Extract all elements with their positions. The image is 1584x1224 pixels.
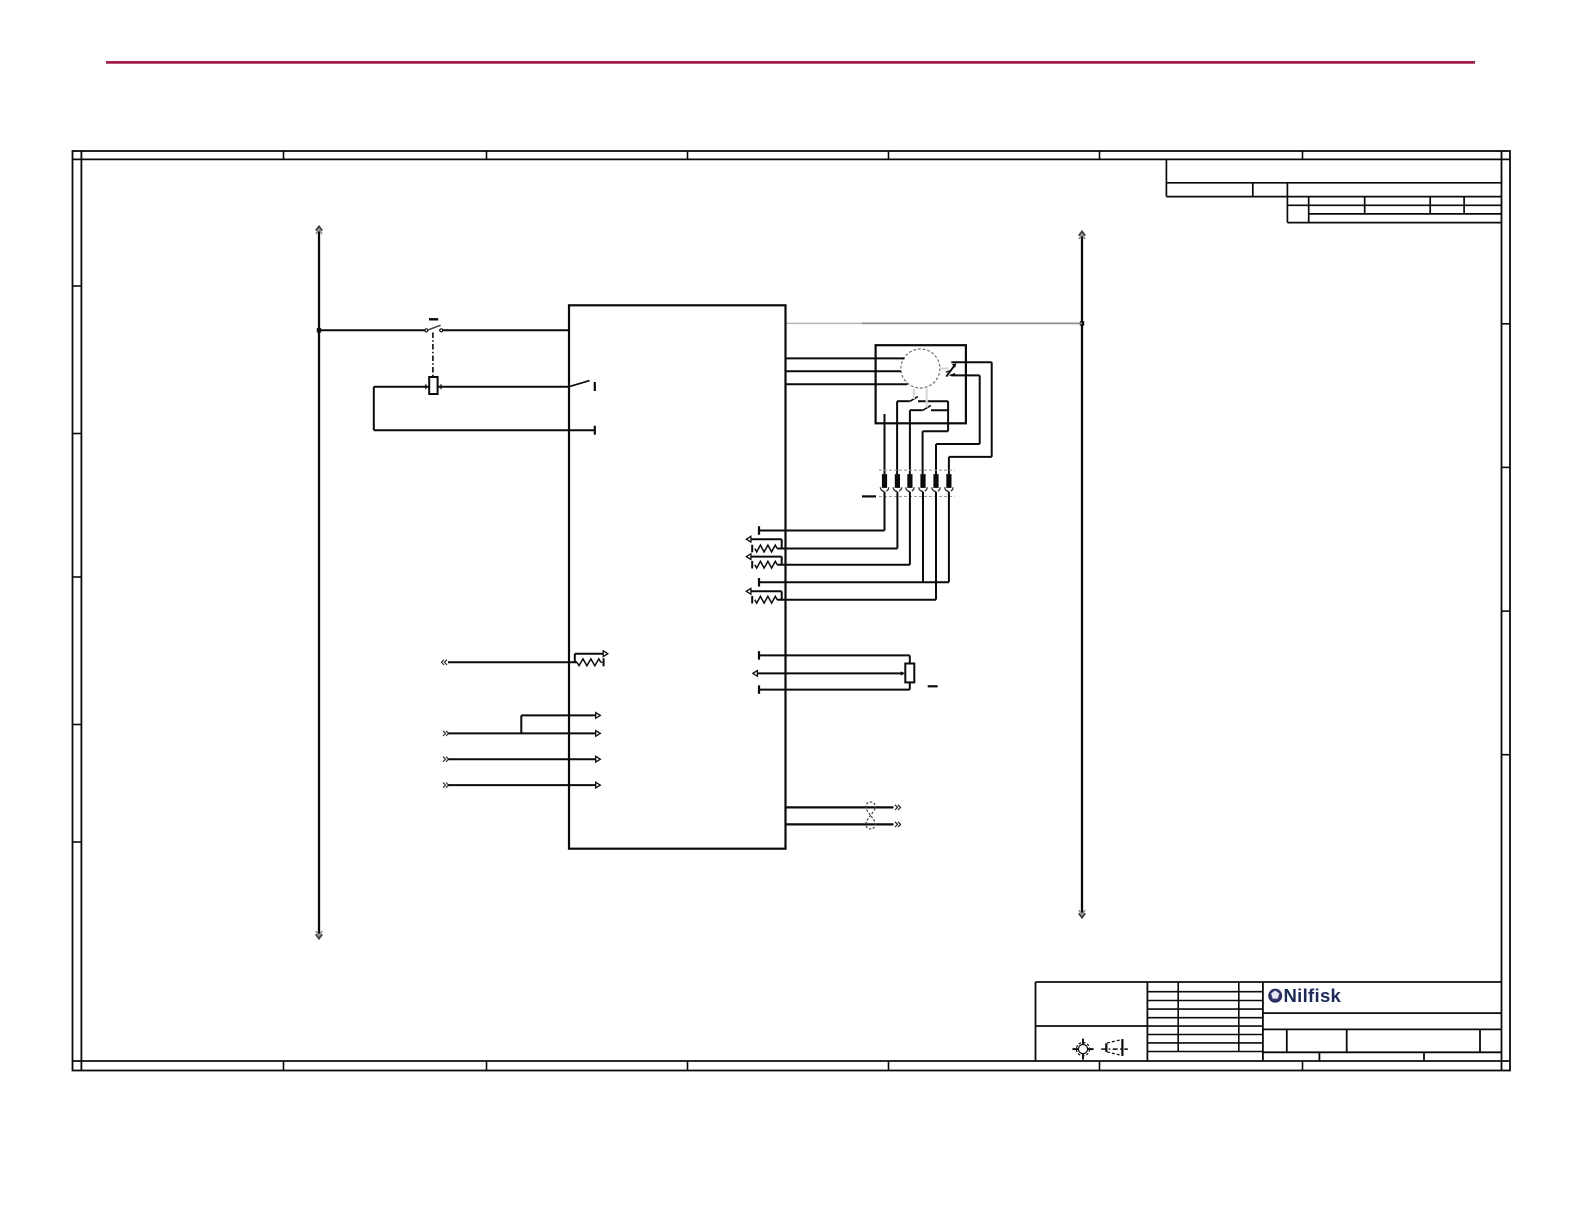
svg-text:Nilfisk: Nilfisk [1284, 985, 1342, 1006]
